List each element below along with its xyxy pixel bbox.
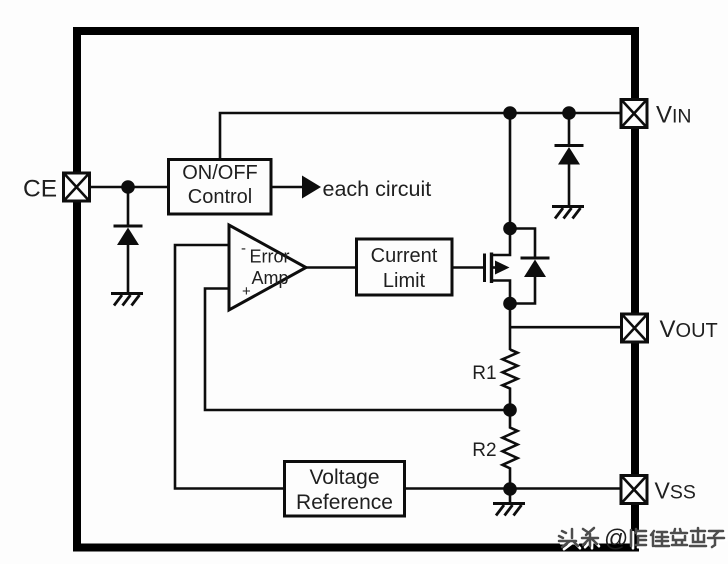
drain jog top [492, 229, 511, 256]
wire: CE junction down to diode [127, 187, 130, 226]
wire: VIN junction B down to diode [568, 113, 571, 146]
wire: Q1 source to VOUT pin [510, 326, 621, 329]
arrowhead: each circuit [302, 176, 321, 199]
block: ON/OFF Control [169, 160, 272, 215]
block: Current Limit [357, 239, 453, 295]
wire: Current Limit to MOSFET gate [452, 266, 483, 269]
node: top rail junction B [562, 106, 576, 120]
wire: error amp plus input / feedback from R1-R2 [205, 289, 510, 411]
svg-text:VSS: VSS [655, 478, 696, 504]
ground (CE diode) [111, 294, 143, 306]
watermark 头条@恒佳盛电子 [559, 525, 726, 552]
node: VSS junction [503, 482, 517, 496]
svg-text:+: + [242, 283, 251, 300]
node: R1-R2 junction [503, 403, 517, 417]
wire: top rail from ON/OFF riser to VIN [220, 113, 621, 160]
svg-text:VOUT: VOUT [660, 316, 718, 343]
gate bar [483, 254, 486, 283]
resistor R1 [503, 350, 518, 411]
svg-text:R2: R2 [472, 440, 496, 461]
source jog bottom [492, 281, 511, 304]
svg-text:Current: Current [371, 245, 438, 267]
wire: stem to ground [509, 489, 512, 504]
svg-text:Amp: Amp [251, 268, 288, 288]
wire: diode to ground [568, 164, 571, 207]
wire: error amp minus input [175, 245, 285, 489]
pin VOUT [622, 314, 648, 342]
svg-text:Limit: Limit [383, 270, 426, 292]
svg-text:@: @ [604, 525, 628, 552]
svg-text:Control: Control [188, 186, 252, 208]
block: Voltage Reference [285, 462, 405, 517]
pin VIN [621, 100, 647, 128]
pin CE [64, 173, 90, 201]
wire: ON/OFF output [271, 186, 303, 189]
diode D2 (VIN ESD diode) [555, 146, 584, 165]
svg-text:each circuit: each circuit [323, 177, 432, 201]
wire: CE to ON/OFF Control [89, 186, 169, 189]
channel bar [490, 253, 493, 284]
resistor R2 [503, 410, 518, 489]
svg-text:VIN: VIN [656, 101, 692, 128]
op-amp U1 Error Amp [229, 225, 306, 310]
IC boundary border [77, 31, 635, 548]
svg-text:-: - [241, 240, 246, 257]
arrow into channel [492, 266, 497, 269]
svg-text:Error: Error [250, 247, 290, 267]
ground (VSS) [493, 504, 525, 516]
transistor Q1 (PMOS pass element) [485, 229, 511, 304]
wire: diode to ground [127, 245, 130, 294]
body diode of Q1 [510, 229, 550, 304]
diode D1 (CE ESD diode) [114, 226, 143, 245]
node: Q1 source dot [503, 297, 517, 311]
svg-text:CE: CE [23, 176, 57, 203]
svg-text:ON/OFF: ON/OFF [182, 162, 258, 184]
pin VSS [621, 476, 647, 504]
node: top rail junction A [503, 106, 517, 120]
svg-text:R1: R1 [472, 363, 496, 384]
wire: VIN rail down to Q1 drain [509, 113, 512, 229]
wire: source down to R1 [509, 304, 512, 351]
svg-text:Voltage: Voltage [309, 466, 379, 489]
svg-text:Reference: Reference [296, 491, 393, 514]
ground (VIN diode) [552, 207, 584, 219]
wire: error amp output to Current Limit [306, 266, 357, 269]
node: CE junction dot [121, 180, 135, 194]
node: Q1 drain dot [503, 222, 517, 236]
wire: VSS rail [405, 487, 621, 490]
